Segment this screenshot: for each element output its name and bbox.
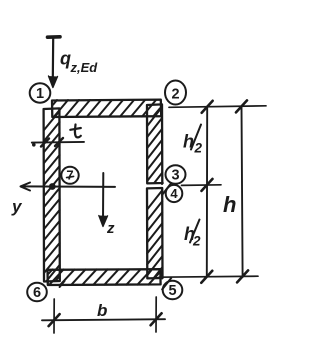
node 5	[163, 281, 183, 300]
node 6	[27, 283, 47, 302]
svg-text:6: 6	[33, 285, 41, 301]
y axis	[21, 183, 116, 191]
thickness dimension t	[32, 138, 84, 147]
svg-text:y: y	[11, 197, 23, 216]
svg-text:2: 2	[192, 234, 201, 249]
svg-text:2: 2	[171, 87, 179, 103]
dimension line h/2+h/2 (inner)	[206, 106, 208, 277]
svg-text:q: q	[60, 49, 71, 69]
extension line b right	[155, 297, 157, 332]
label h/2 upper	[183, 125, 203, 156]
tick top inner	[202, 101, 213, 113]
node 4	[166, 185, 183, 202]
tick b right	[151, 313, 162, 325]
svg-text:b: b	[97, 301, 107, 320]
svg-text:5: 5	[168, 283, 176, 299]
left web	[44, 108, 65, 287]
tick b left	[49, 314, 60, 326]
svg-text:3: 3	[171, 167, 179, 183]
svg-text:2: 2	[194, 141, 203, 156]
tick mid inner	[202, 179, 213, 191]
node 7 crossbar	[67, 176, 74, 177]
svg-text:4: 4	[170, 186, 178, 201]
tick bottom inner	[201, 271, 212, 283]
extension line mid (nodes 3/4)	[182, 184, 222, 187]
extension line bottom (section bottom)	[159, 276, 258, 277]
svg-text:1: 1	[36, 86, 44, 102]
extension line b left	[53, 299, 55, 333]
tick top outer	[236, 100, 247, 112]
top flange	[52, 100, 161, 117]
node 1	[30, 83, 51, 102]
node 2	[165, 81, 186, 105]
svg-text:7: 7	[66, 168, 73, 183]
svg-text:z: z	[106, 220, 115, 237]
svg-text:h: h	[223, 192, 236, 217]
svg-text:z,Ed: z,Ed	[70, 60, 99, 75]
right web upper	[147, 104, 171, 195]
right web lower	[147, 188, 171, 289]
label t	[70, 125, 81, 138]
centroid dot on left web	[49, 183, 56, 190]
node 3	[166, 165, 186, 184]
label h/2 lower	[184, 220, 201, 249]
tick bottom outer	[237, 270, 248, 282]
dimension line h (outer)	[242, 106, 243, 277]
z axis	[99, 173, 108, 227]
bottom flange	[48, 269, 161, 285]
node 7	[61, 167, 78, 184]
extension line top (section top)	[169, 106, 266, 108]
dimension line b	[42, 319, 165, 320]
load arrow q_z,Ed	[48, 37, 61, 88]
